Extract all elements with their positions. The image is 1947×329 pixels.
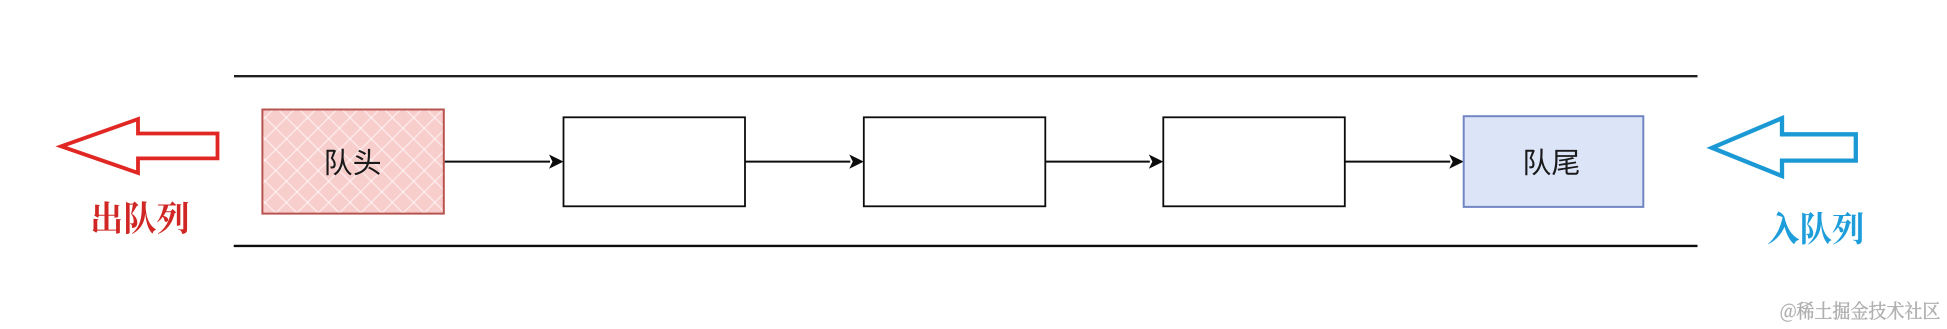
node box 3 (1163, 117, 1345, 206)
watermark @稀土掘金技术社区 (1781, 301, 1940, 321)
node box 1 (564, 117, 746, 206)
wire bottom rail (234, 245, 1698, 247)
wire arrow node3 to tail box (1345, 155, 1464, 169)
node box 2 (864, 117, 1046, 206)
wire top rail (234, 75, 1698, 77)
node 队头 head box (pink crosshatched) (262, 110, 443, 214)
node 队尾 tail box (blue) (1464, 116, 1644, 207)
label 入队列 (blue) (1768, 211, 1863, 244)
dequeue block arrow (red, outlined) (61, 119, 217, 173)
wire arrow head box to node1 (445, 155, 564, 169)
label 出队列 (red) (92, 201, 188, 234)
wire arrow node1 to node2 (745, 155, 864, 169)
wire arrow node2 to node3 (1045, 155, 1163, 169)
enqueue block arrow (blue, outlined) (1712, 118, 1856, 176)
